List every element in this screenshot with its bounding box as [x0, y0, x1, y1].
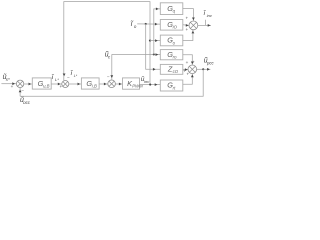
svg-text:cO: cO [173, 69, 179, 74]
svg-text:+: + [185, 27, 188, 32]
svg-text:+: + [186, 60, 189, 65]
svg-text:−: − [21, 88, 24, 93]
svg-text:i,B: i,B [92, 83, 97, 88]
svg-text:pcc: pcc [22, 100, 31, 104]
svg-text:+: + [187, 71, 190, 76]
svg-text:L*: L* [55, 77, 59, 82]
svg-text:+: + [186, 15, 189, 20]
svg-text:PWM: PWM [132, 83, 143, 88]
svg-text:s*: s* [6, 77, 10, 82]
svg-text:+: + [59, 84, 62, 89]
svg-text:ro: ro [173, 55, 177, 60]
svg-text:iO: iO [173, 25, 178, 30]
svg-text:−: − [107, 75, 110, 80]
svg-text:−: − [67, 75, 70, 80]
svg-text:+: + [192, 59, 195, 64]
svg-text:u,B: u,B [43, 83, 50, 88]
svg-text:pcc: pcc [206, 60, 215, 65]
svg-text:+: + [11, 84, 14, 89]
svg-text:+: + [183, 68, 186, 73]
